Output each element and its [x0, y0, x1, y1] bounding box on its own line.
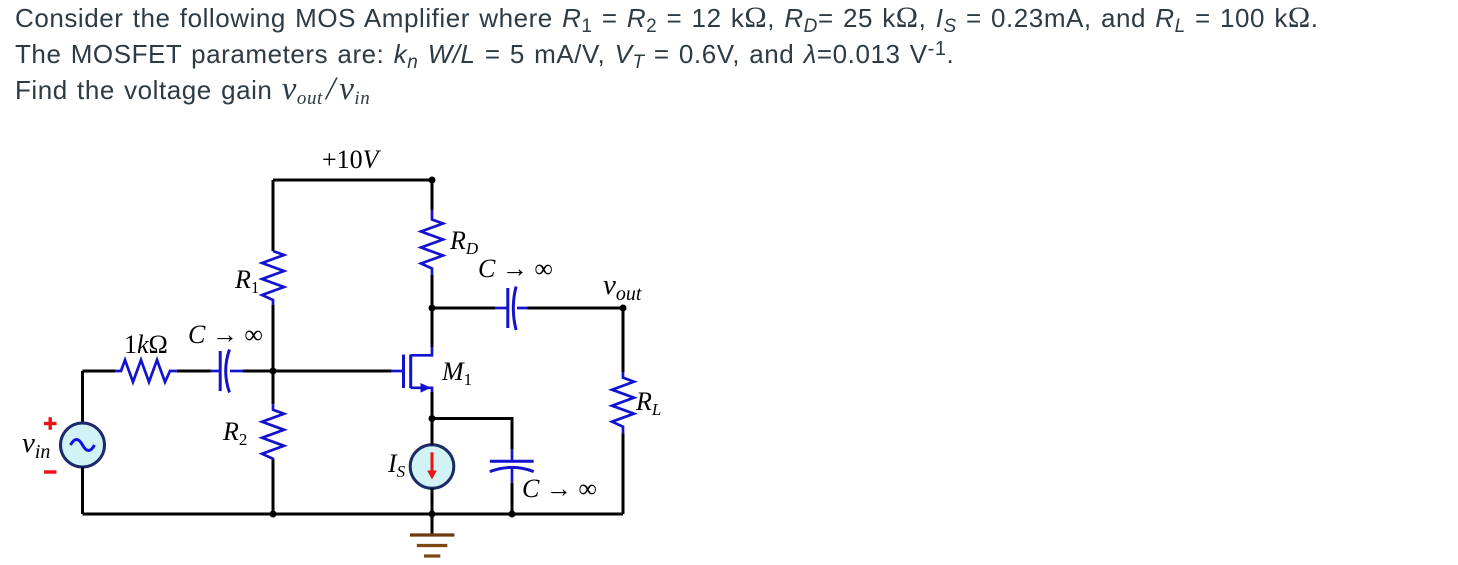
svg-text:RL: RL: [635, 387, 661, 419]
transistor M1: [391, 347, 432, 393]
wire input row left: [83, 370, 116, 373]
wire source lead black: [431, 392, 434, 419]
label plus: [44, 417, 57, 430]
wire R1 top lead: [272, 180, 275, 251]
wire RD bottom lead to drain node: [431, 275, 434, 308]
wire R2 bottom lead: [272, 459, 275, 514]
label minus: [44, 470, 57, 473]
capacitor C (input coupling): [211, 350, 243, 393]
svg-text:C → ∞: C → ∞: [188, 320, 263, 349]
svg-text:R1: R1: [234, 265, 259, 297]
svg-text:C → ∞: C → ∞: [478, 254, 553, 283]
wire R1 bottom lead to gate node: [272, 305, 275, 371]
wire 1k to input cap: [177, 370, 211, 373]
source vin: [61, 423, 105, 467]
svg-text:R2: R2: [222, 417, 247, 449]
wire source row to bypass cap: [432, 419, 512, 450]
wire vin top lead: [81, 371, 84, 423]
resistor R1: [262, 251, 284, 305]
node junction dot ground: [429, 511, 436, 518]
wire vout node to RL: [622, 308, 625, 372]
ground: [410, 535, 454, 556]
wire drain lead black: [431, 308, 434, 347]
wire gate node to R2: [272, 371, 275, 404]
node junction dot gate: [270, 368, 277, 375]
wire drain node to output cap: [432, 307, 495, 310]
wire input cap to gate node: [243, 370, 273, 373]
node junction dot bottom R2: [270, 511, 277, 518]
svg-text:vin: vin: [22, 427, 50, 463]
node junction dot bypass bottom: [509, 511, 516, 518]
capacitor C (bypass): [490, 450, 534, 483]
node junction dot VDD/RD: [429, 177, 436, 184]
wire top +10V rail: [273, 179, 432, 182]
wire RL bottom lead: [622, 433, 625, 514]
svg-text:IS: IS: [387, 449, 406, 481]
capacitor C (output coupling): [495, 287, 528, 331]
wire IS top lead: [431, 419, 434, 446]
wire ground stub: [431, 514, 434, 535]
wire bottom rail: [83, 513, 624, 516]
wire output cap to vout node: [528, 307, 624, 310]
svg-text:C → ∞: C → ∞: [522, 474, 597, 503]
svg-text:1kΩ: 1kΩ: [124, 330, 168, 359]
svg-text:vout: vout: [603, 269, 642, 305]
wire bypass cap bottom lead: [511, 483, 514, 514]
node junction dot vout: [620, 305, 627, 312]
resistor 1k: [115, 360, 176, 382]
node junction dot drain: [429, 305, 436, 312]
resistor R2: [262, 404, 284, 459]
wire gate node to MOSFET: [273, 370, 391, 373]
svg-text:M1: M1: [441, 357, 472, 389]
wire vin bottom lead: [81, 467, 84, 514]
wire RD top lead: [431, 180, 434, 210]
wire IS bottom lead: [431, 488, 434, 514]
svg-text:+10V: +10V: [322, 145, 382, 174]
resistor RD: [421, 210, 443, 275]
current source IS: [410, 445, 454, 489]
svg-text:RD: RD: [449, 226, 479, 258]
node junction dot source: [429, 415, 436, 422]
resistor RL: [612, 372, 634, 433]
